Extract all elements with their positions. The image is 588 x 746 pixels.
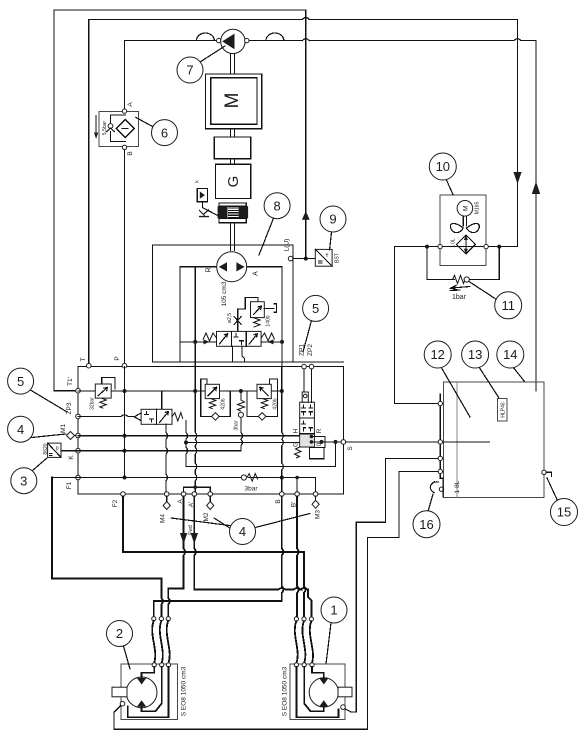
flow arrow on A line xyxy=(180,533,187,544)
svg-text:14: 14 xyxy=(503,347,517,362)
pump unit 8 outer enclosure xyxy=(153,245,293,362)
hose hump left of pump 7 xyxy=(197,33,215,41)
row G xyxy=(186,442,300,444)
jog where T wire crosses L(U) riser xyxy=(302,18,309,20)
tank port strip xyxy=(440,394,443,478)
relief 420b unit 2 box xyxy=(257,384,271,398)
svg-text:S EO8 1050 cm3: S EO8 1050 cm3 xyxy=(181,666,188,716)
filter bypass check ball xyxy=(108,124,113,129)
filter bypass loop xyxy=(111,115,126,142)
svg-text:8620: 8620 xyxy=(43,443,49,454)
svg-text:1bar: 1bar xyxy=(452,294,467,301)
callout 12 xyxy=(424,341,451,368)
ZP1 net vertical xyxy=(303,369,305,392)
left motor (item 2) housing box xyxy=(121,664,177,720)
hose hump right of pump 7 xyxy=(266,33,284,41)
flow arrow up on T1-L(U) wire xyxy=(302,211,310,220)
port F1 circle xyxy=(76,475,81,480)
shaft M to adapter box xyxy=(231,129,235,137)
callout 13 leader xyxy=(479,367,499,398)
svg-text:9: 9 xyxy=(329,212,336,227)
svg-text:5: 5 xyxy=(17,374,24,389)
bottom port B' xyxy=(295,492,300,497)
cooler outlet port circle xyxy=(484,244,488,248)
svg-text:S EO8 1050 cm3: S EO8 1050 cm3 xyxy=(282,666,289,716)
R net vertical inside block xyxy=(194,267,196,367)
junction dot valve right xyxy=(280,340,284,344)
svg-text:HLP46: HLP46 xyxy=(500,402,506,418)
main pump inner case left edge xyxy=(179,267,181,362)
middle check spring xyxy=(238,400,245,411)
selector valve pilot cap xyxy=(302,392,308,402)
svg-text:A: A xyxy=(127,102,134,107)
tank cooler return port xyxy=(438,401,442,405)
callout 1 leader xyxy=(326,623,331,664)
svg-text:K: K xyxy=(196,208,213,218)
svg-text:140b: 140b xyxy=(266,315,272,326)
pilot valve pilot arrow left xyxy=(134,413,141,421)
left motor hose fitting circles top xyxy=(152,617,156,621)
cooler inlet port circle xyxy=(438,244,442,248)
wire suction line segment left of pump 7 xyxy=(125,40,219,42)
left motor shaft xyxy=(112,687,127,697)
pump U7 circle xyxy=(221,29,245,53)
wire A to left motor hose3 xyxy=(168,496,185,616)
svg-text:15: 15 xyxy=(557,505,571,520)
jog where P suction wire crosses cooler feed wire xyxy=(514,39,521,41)
row K xyxy=(61,450,241,452)
svg-text:4: 4 xyxy=(239,524,246,539)
callout 8 xyxy=(264,193,290,219)
svg-text:M: M xyxy=(222,93,243,109)
flow arrow down on cooler feed wire xyxy=(513,172,521,184)
G branch vertical xyxy=(186,421,188,467)
svg-text:Fwd: Fwd xyxy=(188,525,194,535)
cooler diamond arrow xyxy=(465,237,467,253)
callout 14 leader xyxy=(513,367,525,382)
main pump inner case right port line A xyxy=(247,266,282,268)
filter element dashes xyxy=(122,128,128,130)
svg-text:3bar: 3bar xyxy=(244,486,258,493)
svg-text:420b: 420b xyxy=(273,398,279,409)
svg-text:M2: M2 xyxy=(203,512,210,521)
S line into tank xyxy=(443,441,490,443)
speed sensor K triangle xyxy=(200,192,205,199)
left motor box fittings xyxy=(152,663,156,667)
bottom port F2 xyxy=(121,492,126,497)
bottom port A' xyxy=(192,492,197,497)
wire B' to right motor hose1 xyxy=(296,496,298,617)
R net vertical through manifold xyxy=(195,367,197,492)
callout 7 xyxy=(177,57,203,83)
bypass check spring xyxy=(453,275,465,283)
svg-text:7: 7 xyxy=(186,63,193,78)
relief 420b unit 1 frame xyxy=(201,379,231,417)
check valve 3bar on F1 row ball xyxy=(241,475,246,480)
gallery junction dots xyxy=(123,389,127,393)
svg-text:0: 0 xyxy=(316,442,323,446)
selector valve R port link xyxy=(311,437,325,448)
pilot line from orifice to relief 140b xyxy=(238,297,258,331)
flushing valve left cell arrow xyxy=(220,334,228,344)
bottom port M2 with diamond xyxy=(208,492,213,497)
relief 32bar arrow xyxy=(98,388,107,396)
svg-text:16: 16 xyxy=(419,517,433,532)
svg-text:BST: BST xyxy=(335,253,341,263)
port 15 stub xyxy=(546,472,551,476)
flushing valve right cell arrow xyxy=(249,334,257,344)
pilot operated valve body (2 cells) xyxy=(141,409,172,424)
gearbox G box xyxy=(215,164,250,198)
cooler fan propeller xyxy=(450,223,479,232)
junction dot bypass left xyxy=(425,245,429,249)
suction pipe end inside tank xyxy=(535,383,537,391)
svg-text:3: 3 xyxy=(20,473,27,488)
callout 4 bottom leaders xyxy=(171,514,310,529)
cooler fan shaft xyxy=(463,216,466,226)
check valve 3bar on F1 row spring xyxy=(247,474,258,482)
callout 4 bottom xyxy=(230,519,256,545)
selector valve H-G-R-0 body xyxy=(300,402,315,447)
pilot valve spring right xyxy=(172,413,183,421)
svg-text:13: 13 xyxy=(468,347,482,362)
port ZP2 circle xyxy=(309,364,314,369)
filter F1 enclosure box xyxy=(99,112,138,147)
left motor bottom triangle xyxy=(137,700,146,707)
selector valve cell divider xyxy=(300,418,315,434)
svg-text:3bar: 3bar xyxy=(234,420,240,430)
right motor internal pipe drain xyxy=(296,667,338,717)
relief 420b unit 2 spring xyxy=(261,399,268,409)
pressure transducer box (item 3) xyxy=(48,443,61,457)
valve to M4 vertical xyxy=(166,424,168,491)
svg-text:M4: M4 xyxy=(160,514,167,523)
speed sensor K box xyxy=(197,189,207,202)
left motor case drain port xyxy=(120,701,125,706)
row ZP3 to pilot valve xyxy=(78,415,134,417)
svg-text:6: 6 xyxy=(161,125,168,140)
svg-text:4: 4 xyxy=(17,422,24,437)
callout 10 xyxy=(429,153,456,180)
flow arrow on A' line xyxy=(191,533,198,544)
port T circle xyxy=(87,363,92,368)
callout 16 xyxy=(413,511,440,538)
A'-M2 bridge xyxy=(184,487,211,492)
left motor drain to bottom rail xyxy=(114,705,121,729)
main pump circle xyxy=(217,252,247,282)
svg-text:M1: M1 xyxy=(60,424,67,433)
coupling bottom plate xyxy=(219,218,246,222)
svg-text:M1b5: M1b5 xyxy=(475,202,481,215)
relief 420b unit 1 spring xyxy=(209,399,216,409)
relief 420b unit 1 diamond xyxy=(212,413,220,421)
row F1 with check 3bar xyxy=(52,478,316,492)
flow arrow up on suction wire xyxy=(532,182,540,195)
callout 9 xyxy=(320,206,346,232)
flushing valve body 3-position xyxy=(217,331,262,346)
junction dot at L(U) riser and BST sensor line xyxy=(304,257,308,261)
bottom port B xyxy=(280,492,285,497)
adapter box between M and G xyxy=(214,137,250,159)
right motor (item 1) housing box xyxy=(290,664,345,720)
callout 14 xyxy=(497,341,524,368)
svg-text:G: G xyxy=(225,176,242,188)
wire P suction: from tank top up across top through filter to P port xyxy=(125,41,537,391)
coupling top plate xyxy=(219,203,246,206)
electric motor M outer box xyxy=(205,74,261,129)
middle check ball xyxy=(238,412,243,417)
svg-text:32bar: 32bar xyxy=(90,397,96,410)
main pump right triangle xyxy=(236,262,244,271)
electric motor M inner box xyxy=(211,78,257,125)
right motor bottom triangle xyxy=(319,700,328,707)
callout 5 left xyxy=(8,368,34,394)
cooler unit box xyxy=(440,195,486,266)
svg-text:K: K xyxy=(68,455,75,460)
svg-text:B: B xyxy=(127,151,134,155)
relief valve 140b spring xyxy=(254,318,261,328)
relief valve 140b arrow xyxy=(254,306,262,315)
svg-text:5: 5 xyxy=(312,301,319,316)
left motor internal pipe drain xyxy=(128,667,169,717)
selector valve 0 port to S xyxy=(311,441,345,443)
callout 4 left leader xyxy=(32,434,67,438)
svg-text:A: A xyxy=(253,271,260,276)
callout 11 leader xyxy=(469,282,497,300)
pilot valve left cell blocked symbols xyxy=(145,412,154,423)
flushing valve left supply line xyxy=(180,341,216,343)
A net vertical inside block xyxy=(281,267,283,367)
pump U7 flow triangle xyxy=(222,34,234,50)
manifold block outline xyxy=(78,367,343,494)
coupling right black block xyxy=(239,206,249,218)
svg-text:e: e xyxy=(326,253,329,259)
relief 420b unit 1 arrow xyxy=(208,387,217,396)
tank internal baffle line xyxy=(456,382,458,498)
T1 branch to pilot valve top xyxy=(161,391,163,409)
transducer diagonal xyxy=(48,443,61,457)
relief 420b unit 2 arrow xyxy=(260,387,269,396)
right motor case drain port xyxy=(341,705,346,710)
svg-text:p: p xyxy=(56,446,59,452)
pressure sensor BST box (item 9) xyxy=(315,249,332,266)
svg-text:H: H xyxy=(293,428,300,433)
svg-text:F2: F2 xyxy=(112,499,119,507)
ZP2 net vertical xyxy=(311,369,313,402)
relief valve 32bar box xyxy=(95,384,111,398)
callout 15 leader xyxy=(547,478,558,501)
callout 8 leader xyxy=(259,218,274,255)
selector valve port zone shading xyxy=(300,434,314,447)
flushing valve centre cell blocked symbols xyxy=(234,334,244,345)
main pump left triangle xyxy=(219,262,227,271)
tank side port 15 xyxy=(542,470,546,474)
svg-text:R: R xyxy=(316,428,323,433)
filter flow direction arrow xyxy=(95,116,97,135)
svg-text:10: 10 xyxy=(436,159,450,174)
svg-text:G: G xyxy=(293,442,300,447)
svg-text:F1: F1 xyxy=(66,481,73,489)
callout 4 left xyxy=(8,416,34,442)
callout 16 leader xyxy=(428,494,433,512)
flushing valve cell dividers xyxy=(231,331,246,346)
port ZP1 circle xyxy=(302,364,307,369)
drain cock 16 circle on strip xyxy=(439,487,443,491)
main pump inner case left port line R xyxy=(180,266,217,268)
wire T1' loop: left outer frame from T1' port up and across to L(U) junction xyxy=(54,10,306,391)
tank body rectangle xyxy=(444,382,545,498)
tank S suction port xyxy=(438,440,442,444)
filter port B circle xyxy=(122,145,126,149)
right motor shaft xyxy=(338,687,352,697)
svg-text:R: R xyxy=(206,267,213,272)
svg-text:M3: M3 xyxy=(315,510,322,519)
S line to tank xyxy=(346,441,438,443)
orifice feed to directional valve xyxy=(237,324,239,331)
row lower link xyxy=(186,444,336,467)
callout 6 leader xyxy=(136,118,153,127)
relief 32bar pilot loop xyxy=(102,378,115,389)
svg-text:5,5bar: 5,5bar xyxy=(102,121,108,136)
callout 11 xyxy=(495,292,522,319)
junction dot bypass right xyxy=(497,245,501,249)
bypass check arrows xyxy=(450,286,470,291)
svg-text:420b: 420b xyxy=(221,398,227,409)
port T1' circle xyxy=(76,388,81,393)
jog where P suction wire crosses L(U) riser xyxy=(302,39,309,41)
left motor circle xyxy=(126,677,157,708)
wire K port to transducer xyxy=(61,450,76,452)
row M1-H to selector valve xyxy=(78,435,300,437)
bottom case drain rail to tank xyxy=(114,472,438,730)
flushing valve right spring xyxy=(261,333,275,341)
port S circle on manifold edge xyxy=(341,440,346,445)
left motor internal pipe A xyxy=(142,667,155,678)
callout 5 left leader xyxy=(31,390,68,412)
tank drain port upper xyxy=(438,456,442,460)
relief 420b unit 1 box xyxy=(205,384,219,398)
L(U) port circle on enclosure xyxy=(288,256,293,261)
coupling left black block xyxy=(218,206,228,218)
wire F1 drain to left motor xyxy=(52,478,163,617)
filter diamond with element xyxy=(116,120,134,138)
callout 3 leader xyxy=(33,458,48,471)
svg-text:11: 11 xyxy=(501,298,515,313)
svg-text:1: 1 xyxy=(330,603,337,618)
right motor box fittings xyxy=(294,663,298,667)
shaft coupling to main pump xyxy=(231,223,235,251)
svg-text:S: S xyxy=(347,446,354,451)
right motor hose fitting circles top xyxy=(294,617,298,621)
left motor internal pipe B xyxy=(142,667,162,711)
pilot valve right cell arrow xyxy=(160,412,169,423)
svg-text:8: 8 xyxy=(273,198,280,213)
callout 6 xyxy=(152,120,178,146)
filter port A circle xyxy=(122,109,126,113)
port K circle xyxy=(76,448,81,453)
callout 3 xyxy=(11,468,37,494)
pump U7 drive shaft to motor M xyxy=(231,53,235,74)
sensor link line to coupling xyxy=(202,202,217,216)
callout 5 right xyxy=(303,295,329,321)
callout 12 leader xyxy=(441,367,470,417)
callout 5 right leader xyxy=(303,321,312,353)
wire cooler outlet to tank xyxy=(394,247,438,404)
middle check 3bar vertical with spring xyxy=(241,391,243,451)
orifice 2.5 cross xyxy=(234,317,241,325)
drain cock 16 hook xyxy=(430,482,438,493)
left motor hoses xyxy=(152,621,155,663)
relief 420b unit 2 diamond xyxy=(258,413,266,421)
relief valve 140b box xyxy=(251,302,265,318)
filter bypass seat xyxy=(107,128,114,131)
relief 32bar spring xyxy=(100,398,107,408)
svg-text:1 8L: 1 8L xyxy=(454,480,461,493)
A net vertical through manifold xyxy=(282,367,284,492)
right motor drain going up to tank xyxy=(345,458,438,712)
svg-text:2: 2 xyxy=(116,626,123,641)
flushing valve left spring xyxy=(203,333,217,341)
port M1 circle xyxy=(76,433,81,438)
pump U7 inlet port circle xyxy=(217,38,221,42)
wire F2 to rail1 xyxy=(123,496,306,617)
wire P below filter down to P port xyxy=(124,147,126,365)
left motor top triangle xyxy=(137,678,146,685)
M1 stub and diamond xyxy=(74,435,76,437)
callout 10 leader xyxy=(446,179,453,195)
shaft adapter to gearbox G xyxy=(231,159,235,165)
callout 9 leader xyxy=(330,233,332,251)
flushing valve tank stubs xyxy=(233,346,245,362)
callout 1 xyxy=(321,597,347,623)
callout 2 xyxy=(107,621,133,647)
callout 2 leader xyxy=(124,646,131,669)
svg-text:12: 12 xyxy=(430,347,444,362)
bypass check ball xyxy=(464,277,469,282)
selector valve bypass box xyxy=(309,448,324,459)
port ZP3 circle xyxy=(76,414,81,419)
row T1 gallery xyxy=(78,390,282,392)
P net vertical xyxy=(124,367,126,478)
wire L(U) to BST pressure sensor xyxy=(293,258,315,260)
sensor BST bottom mark xyxy=(318,261,323,263)
bottom port M3 with diamond xyxy=(313,492,318,497)
relief 420b unit 2 frame xyxy=(247,379,277,417)
right motor internal pipe B xyxy=(304,667,324,711)
port P circle xyxy=(122,363,127,368)
svg-text:T: T xyxy=(80,357,87,361)
wire A' to rail2 and right motor hose3 xyxy=(194,496,311,617)
callout 7 leader xyxy=(200,46,225,62)
junction dot valve left xyxy=(193,340,197,344)
right motor circle xyxy=(309,678,338,707)
strip lower jog xyxy=(442,478,444,497)
svg-text:105 cm3: 105 cm3 xyxy=(221,281,228,306)
right motor top triangle xyxy=(319,678,328,685)
callout 13 xyxy=(462,341,489,368)
wire T return: from T port up across top to cooler xyxy=(89,19,518,365)
svg-text:T1': T1' xyxy=(67,377,74,386)
selector valve spring bottom xyxy=(295,447,302,458)
right motor hoses xyxy=(295,621,298,663)
right motor internal pipe A xyxy=(312,667,324,678)
bottom port A xyxy=(181,492,186,497)
svg-text:M: M xyxy=(462,206,469,211)
callout 15 xyxy=(551,499,578,526)
pump U7 outlet port circle xyxy=(245,38,249,42)
svg-text:ZP2: ZP2 xyxy=(307,344,314,356)
svg-text:P: P xyxy=(114,356,121,360)
